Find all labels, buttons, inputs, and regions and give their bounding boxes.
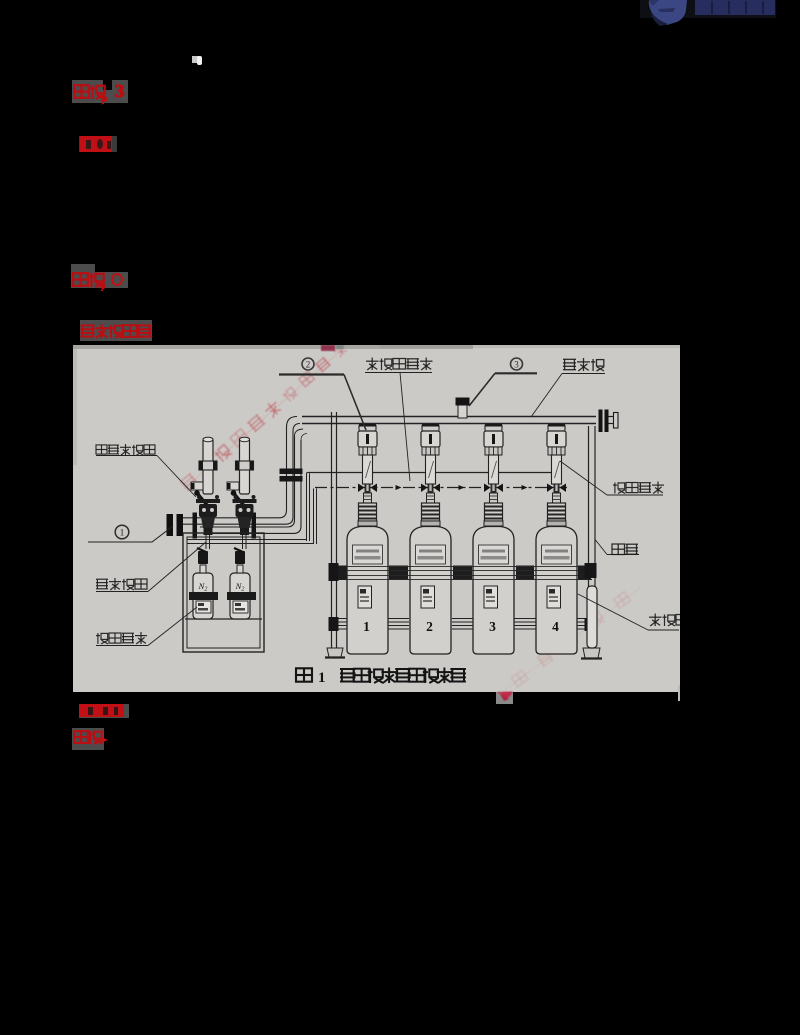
svg-text:4: 4 [552, 619, 559, 634]
svg-text:2: 2 [426, 619, 433, 634]
svg-text:1: 1 [363, 619, 370, 634]
svg-text:2: 2 [306, 360, 311, 370]
svg-text:1: 1 [120, 529, 125, 539]
svg-text:3: 3 [489, 619, 496, 634]
svg-text:1: 1 [318, 670, 326, 686]
svg-text:3: 3 [514, 360, 519, 370]
